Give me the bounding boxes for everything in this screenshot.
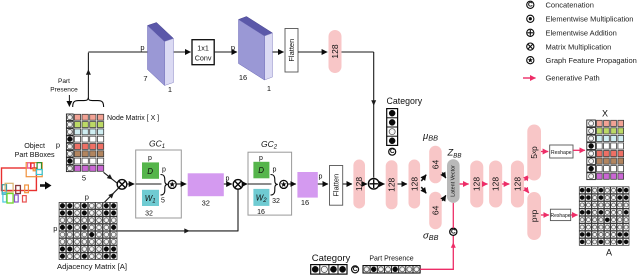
concatenation node — [389, 148, 396, 155]
svg-text:Part Presence: Part Presence — [369, 256, 413, 263]
wire — [318, 183, 328, 185]
legend elementwise multiplication — [527, 15, 634, 24]
mu_BB label — [422, 131, 438, 143]
svg-text:128: 128 — [409, 177, 419, 191]
svg-text:128: 128 — [387, 177, 397, 191]
tensor slab p x 16 x 1 — [231, 17, 273, 94]
category one-hot vector (bottom) — [311, 265, 347, 275]
svg-text:Flatten: Flatten — [332, 174, 341, 197]
feature vector 128 (top) — [329, 30, 342, 73]
legend elementwise addition — [527, 29, 617, 38]
generative wire — [483, 183, 487, 185]
mu vector 64 — [429, 146, 442, 184]
svg-text:5: 5 — [161, 197, 165, 204]
svg-text:Elementwise Multiplication: Elementwise Multiplication — [546, 15, 634, 24]
wire — [243, 183, 248, 185]
svg-text:p: p — [273, 167, 277, 174]
svg-text:X: X — [602, 109, 608, 119]
Z_BB label — [447, 148, 462, 160]
wire — [343, 183, 352, 185]
wire — [176, 183, 186, 185]
category vector top — [387, 96, 423, 146]
svg-text:16: 16 — [257, 209, 265, 216]
sigma vector 64 — [429, 192, 442, 230]
hidden feature map 16 — [297, 172, 322, 207]
svg-text:16: 16 — [239, 73, 247, 82]
svg-text:Reshape: Reshape — [551, 150, 572, 156]
wire — [224, 183, 232, 185]
svg-text:μBB: μBB — [422, 131, 438, 143]
svg-text:32: 32 — [202, 199, 210, 208]
svg-text:σBB: σBB — [423, 231, 439, 243]
decoder vector 128 — [511, 161, 524, 208]
svg-text:1: 1 — [267, 84, 271, 93]
Flatten block (bottom) — [330, 166, 343, 206]
reconstructed adjacency matrix A — [579, 187, 629, 246]
legend matrix multiplication — [527, 42, 612, 51]
matrix multiplication node — [117, 180, 127, 190]
generative wire — [541, 214, 549, 216]
svg-text:128: 128 — [513, 177, 523, 191]
svg-text:Matrix Multiplication: Matrix Multiplication — [546, 42, 612, 51]
decoder vector 128 — [489, 161, 502, 208]
svg-text:C: C — [528, 1, 533, 8]
generative wire — [502, 183, 509, 185]
adjacency matrix labels — [53, 193, 127, 271]
svg-text:C: C — [390, 148, 395, 155]
object part bboxes sketch — [2, 163, 43, 203]
output vector 5xp — [527, 125, 541, 181]
wire — [298, 51, 327, 53]
svg-text:32: 32 — [145, 211, 153, 218]
svg-text:1: 1 — [168, 85, 172, 94]
hidden feature map 32 — [188, 173, 230, 207]
svg-text:p: p — [85, 193, 89, 202]
wire — [342, 52, 377, 178]
Flatten block (top) — [285, 29, 298, 73]
node matrix labels — [56, 115, 159, 182]
brace over node matrix columns — [73, 98, 104, 107]
svg-text:Part: Part — [58, 78, 70, 85]
sigma_BB label — [423, 231, 439, 243]
wire — [117, 189, 238, 233]
Reshape block (bottom) — [550, 209, 570, 220]
svg-text:D: D — [258, 166, 264, 175]
svg-text:A: A — [606, 248, 612, 258]
svg-text:Flatten: Flatten — [287, 39, 296, 62]
part presence vector — [363, 266, 420, 273]
svg-text:Generative Path: Generative Path — [546, 74, 600, 83]
graph feature propagation node — [280, 180, 288, 188]
object part bboxes label — [15, 141, 55, 159]
output vector pxp — [527, 192, 541, 240]
svg-text:p: p — [226, 176, 230, 183]
node matrix [X] — [66, 114, 103, 172]
concatenation node (pink path) — [450, 228, 457, 235]
svg-text:p: p — [140, 43, 144, 52]
wire — [104, 172, 118, 183]
wire — [168, 51, 191, 53]
generative split wires — [525, 175, 529, 193]
svg-text:64: 64 — [430, 205, 440, 215]
part presence label (bottom) — [369, 256, 413, 263]
generative wire — [571, 214, 578, 216]
svg-text:p: p — [148, 155, 152, 162]
svg-text:p: p — [53, 224, 57, 233]
wire — [127, 183, 135, 185]
wire — [379, 183, 385, 185]
svg-text:128: 128 — [491, 177, 501, 191]
svg-text:Conv: Conv — [195, 54, 212, 63]
svg-text:Node Matrix [ X ]: Node Matrix [ X ] — [107, 115, 159, 122]
generative wire part presence to concat — [420, 236, 456, 270]
decoder vector 128 — [470, 161, 483, 208]
legend concatenation — [527, 1, 594, 10]
1x1 Conv block — [192, 40, 214, 65]
wire — [273, 51, 284, 53]
tensor slab p x 7 x 1 — [140, 23, 173, 95]
svg-text:Category: Category — [312, 253, 351, 264]
legend graph feature propagation — [527, 56, 637, 65]
svg-text:5: 5 — [82, 174, 86, 183]
wire — [105, 188, 119, 202]
graph feature propagation node — [168, 180, 176, 188]
GC1 block — [136, 139, 182, 219]
svg-text:Category: Category — [387, 96, 423, 106]
svg-text:Graph Feature Propagation: Graph Feature Propagation — [546, 56, 637, 65]
svg-text:128: 128 — [472, 177, 482, 191]
wire — [398, 183, 408, 185]
svg-text:p: p — [56, 141, 60, 150]
svg-text:p: p — [162, 167, 166, 174]
svg-text:64: 64 — [430, 160, 440, 170]
generative wire concat to latent — [452, 203, 454, 228]
svg-text:p: p — [231, 43, 235, 52]
wire — [68, 95, 70, 107]
merge wires into latent — [442, 173, 446, 201]
legend generative path — [523, 74, 600, 83]
adjacency matrix [A] — [59, 202, 117, 259]
concatenation node — [352, 266, 359, 273]
svg-text:128: 128 — [354, 177, 364, 191]
Reshape block (top) — [550, 145, 573, 158]
svg-text:7: 7 — [143, 74, 147, 83]
svg-text:Presence: Presence — [50, 87, 78, 94]
svg-text:128: 128 — [330, 44, 340, 58]
wire — [86, 52, 160, 99]
svg-text:p: p — [259, 155, 263, 162]
svg-text:p: p — [319, 174, 323, 181]
category label (bottom) — [312, 253, 351, 264]
GC2 block — [248, 139, 292, 216]
svg-text:Part BBoxes: Part BBoxes — [15, 150, 55, 159]
svg-text:Latent Vector: Latent Vector — [450, 165, 456, 197]
feature vector 128 — [353, 160, 365, 209]
generative wire — [573, 149, 585, 151]
split wires to mu and sigma — [421, 175, 426, 194]
svg-text:C: C — [353, 266, 358, 273]
wire — [288, 183, 296, 185]
latent vector pill — [447, 159, 460, 203]
svg-text:16: 16 — [301, 198, 309, 207]
svg-text:32: 32 — [272, 198, 280, 205]
svg-text:C: C — [451, 228, 456, 235]
wire — [214, 51, 238, 53]
elementwise addition node — [368, 179, 379, 190]
feature vector 128 — [386, 160, 398, 209]
svg-text:Concatenation: Concatenation — [546, 1, 594, 10]
generative wire — [460, 183, 469, 185]
part presence label — [50, 78, 78, 94]
svg-text:Reshape: Reshape — [550, 213, 570, 219]
svg-text:Elementwise Addition: Elementwise Addition — [546, 29, 617, 38]
feature vector 128 — [409, 160, 421, 209]
svg-text:1x1: 1x1 — [197, 43, 209, 52]
svg-text:D: D — [147, 167, 153, 176]
wire — [40, 182, 52, 190]
wire — [365, 183, 367, 185]
matrix multiplication node — [233, 180, 243, 190]
generative wire — [541, 151, 548, 153]
svg-text:Object: Object — [24, 141, 45, 150]
reconstructed node matrix X — [602, 109, 608, 119]
svg-text:Adjacency Matrix [A]: Adjacency Matrix [A] — [57, 262, 127, 271]
